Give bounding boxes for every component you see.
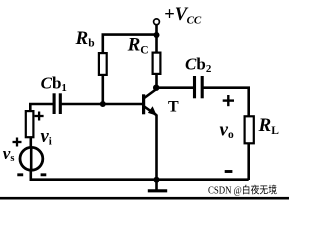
capacitor Cb2 — [195, 76, 203, 98]
wire collector to Cb2 — [156, 86, 194, 89]
plus sign vo — [223, 95, 234, 106]
svg-text:RC: RC — [127, 35, 149, 57]
svg-text:vs: vs — [3, 144, 15, 164]
wire emitter column — [155, 115, 158, 180]
wire input left branch — [30, 104, 53, 111]
svg-text:RL: RL — [258, 115, 280, 137]
transistor emitter arrowhead — [148, 106, 157, 115]
svg-text:CSDN @白夜无境: CSDN @白夜无境 — [208, 184, 277, 197]
svg-text:T: T — [168, 98, 179, 115]
svg-text:Rb: Rb — [75, 28, 95, 50]
wire through source — [30, 147, 33, 170]
wire bottom rail — [30, 178, 249, 181]
svg-text:vi: vi — [41, 127, 52, 148]
node junction dot base — [100, 101, 106, 107]
node junction dot emitter-ground — [154, 177, 160, 183]
transistor emitter lead — [144, 106, 157, 115]
plus sign vs — [13, 138, 22, 147]
minus sign vs — [17, 173, 23, 176]
transistor collector lead — [144, 89, 157, 99]
resistor RL — [245, 116, 254, 143]
wire Rb bottom to base node — [102, 74, 105, 104]
ground stub — [155, 180, 158, 191]
ground — [148, 189, 167, 192]
svg-text:Cb2: Cb2 — [185, 55, 212, 76]
resistor RC — [153, 53, 161, 74]
capacitor Cb1 — [54, 93, 60, 114]
Vcc terminal circle — [154, 19, 160, 25]
svg-text:Cb1: Cb1 — [41, 74, 67, 95]
node junction dot collector — [153, 85, 159, 91]
svg-text:+VCC: +VCC — [164, 5, 202, 26]
wire collector column — [155, 73, 158, 89]
minus sign vi — [41, 173, 47, 176]
wire top rail — [103, 35, 157, 53]
plus sign vi — [35, 112, 44, 121]
wire Cb2 to RL — [203, 88, 248, 116]
svg-text:vo: vo — [220, 120, 234, 142]
wire Vcc stub — [155, 25, 158, 53]
transistor Q base bar — [142, 94, 145, 114]
wire base rail — [62, 103, 144, 106]
wire source to bottom — [29, 138, 32, 180]
source vs circle — [20, 147, 43, 170]
wire RL bottom — [247, 144, 250, 180]
resistor Rs (source internal) — [26, 111, 34, 137]
minus sign vo — [225, 170, 233, 173]
resistor Rb — [99, 53, 107, 75]
node junction dot top — [154, 32, 160, 38]
bottom border line — [0, 197, 289, 200]
